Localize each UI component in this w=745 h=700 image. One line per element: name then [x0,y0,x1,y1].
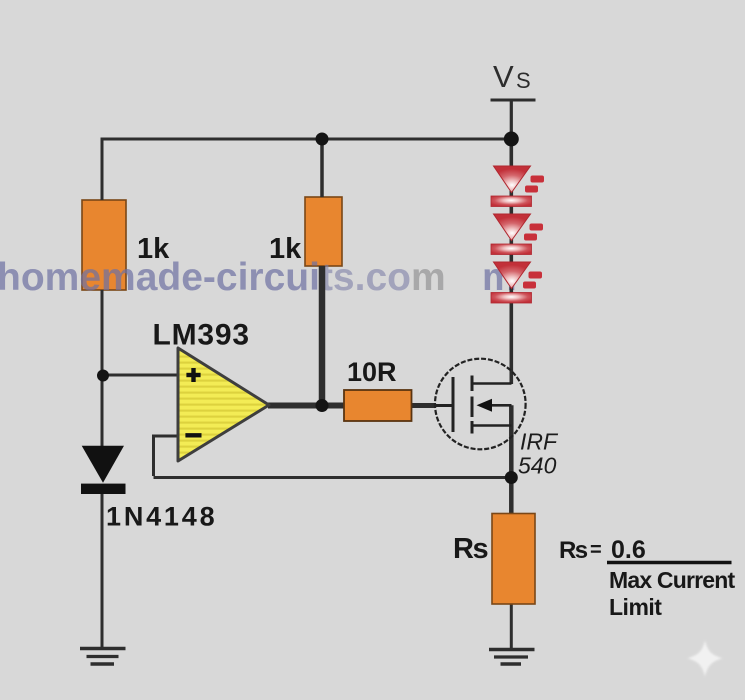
svg-text:LM393: LM393 [153,319,250,352]
svg-text:homemade-circuits.com: homemade-circuits.com [0,256,446,299]
svg-text:Rs: Rs [453,533,487,565]
svg-text:IRF: IRF [520,429,559,455]
svg-text:10R: 10R [347,357,397,387]
svg-text:V: V [493,59,514,94]
svg-text:=: = [590,539,602,561]
svg-text:1N4148: 1N4148 [106,502,217,532]
svg-text:Max Current: Max Current [609,567,736,593]
svg-text:1k: 1k [137,233,170,265]
svg-text:Rs: Rs [559,537,588,564]
svg-text:0.6: 0.6 [611,536,646,564]
svg-text:Limit: Limit [609,594,662,620]
svg-text:1k: 1k [269,233,302,265]
svg-text:540: 540 [518,453,557,479]
svg-text:S: S [516,68,531,93]
